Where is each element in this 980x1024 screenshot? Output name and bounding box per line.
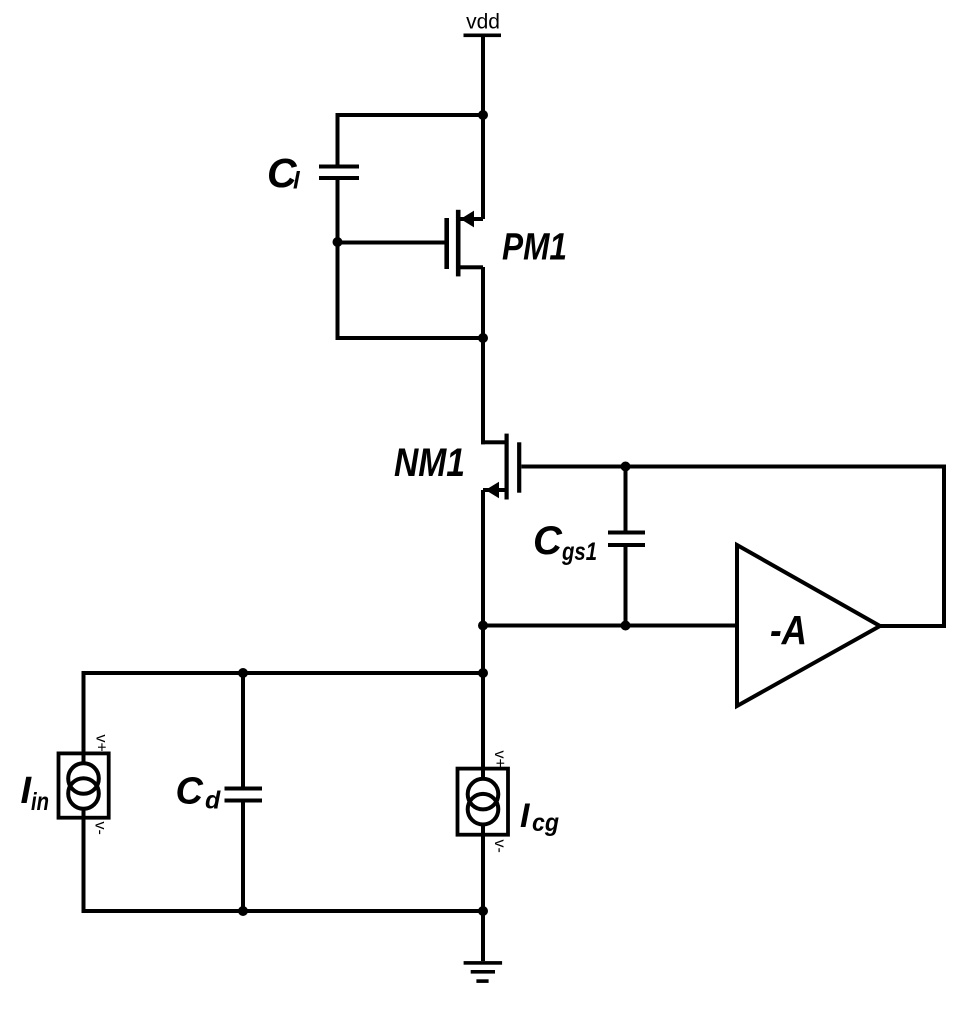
current source I_cg box	[458, 769, 509, 835]
svg-text:v+: v+	[93, 735, 110, 752]
svg-text:I: I	[520, 797, 531, 835]
current source I_in circles	[68, 763, 99, 794]
capacitor C_d plates	[225, 787, 263, 791]
junction N4 (gate / C_gs1 top)	[621, 462, 631, 472]
junction N6 (C_gs1 bottom on input rail)	[621, 621, 631, 631]
junction N10 (ground tap)	[478, 906, 488, 916]
transistor PM1 drain lead	[461, 265, 484, 269]
svg-text:vdd: vdd	[466, 11, 500, 34]
wire N5 down to bottom-section node N7	[481, 626, 485, 674]
svg-text:in: in	[31, 788, 49, 816]
svg-text:d: d	[205, 787, 221, 815]
transistor NM1 gate bar	[517, 442, 521, 492]
wire I_in bottom lead	[82, 809, 86, 911]
junction N8 (C_d top)	[238, 668, 248, 678]
wire node N1 left to C_l top	[336, 113, 484, 117]
capacitor C_l plates	[319, 165, 359, 169]
wire left branch down to I_in	[82, 673, 86, 764]
transistor PM1 source lead with arrow	[461, 217, 484, 221]
ground symbol	[464, 961, 503, 965]
svg-text:v-: v-	[491, 840, 508, 853]
wire feedback right vertical	[942, 467, 946, 627]
svg-text:C: C	[533, 519, 563, 563]
wire amp output	[878, 624, 946, 628]
wire NM1 gate right to feedback rail	[521, 465, 946, 469]
transistor PM1 channel bar	[456, 210, 461, 277]
wire C_l top lead	[336, 115, 340, 165]
wire N7 down to I_cg	[481, 673, 485, 779]
wire ground stem	[481, 911, 485, 961]
junction N7 (input node top rail)	[478, 668, 488, 678]
transistor PM1 gate bar	[444, 218, 449, 269]
wire N2 down and right to node N3	[336, 242, 340, 340]
svg-text:v+: v+	[491, 751, 508, 768]
wire C_l bottom lead to node N2	[336, 180, 340, 242]
junction N5 (NM1 source / amp input rail)	[478, 621, 488, 631]
capacitor C_d top lead	[241, 673, 245, 787]
junction N9 (C_d bottom on ground rail)	[238, 906, 248, 916]
op-amp U1 (-A) triangle	[737, 545, 880, 706]
capacitor C_d bottom lead	[241, 803, 245, 912]
svg-text:-A: -A	[770, 607, 807, 653]
current source I_cg circles	[468, 779, 499, 810]
wire bottom ground rail	[82, 909, 484, 913]
wire PM1 gate lead	[338, 241, 445, 245]
capacitor C_gs1 plates	[608, 531, 645, 535]
wire vdd bar down to node N1	[481, 35, 485, 116]
svg-text:v-: v-	[92, 822, 109, 835]
capacitor C_gs1 top lead	[624, 467, 628, 531]
junction N3 (PM1 drain / C_l return / NM1 drain)	[478, 333, 488, 343]
svg-text:PM1: PM1	[502, 226, 567, 268]
junction N1 (vdd / C_l / PM1 source)	[478, 110, 488, 120]
svg-text:NM1: NM1	[394, 441, 465, 485]
wire N5 right to amp input	[483, 624, 737, 628]
wire top rail of source network	[82, 671, 484, 675]
wire I_cg bottom lead	[481, 825, 485, 914]
svg-text:C: C	[176, 771, 204, 813]
junction N2 (C_l bottom / PM1 gate tap)	[333, 237, 343, 247]
current source I_in box	[59, 753, 109, 817]
capacitor C_gs1 bottom lead	[624, 547, 628, 626]
svg-text:cg: cg	[532, 809, 559, 837]
svg-text:gs1: gs1	[561, 538, 597, 566]
transistor NM1 drain jog	[481, 440, 505, 444]
transistor NM1 channel bar	[505, 434, 509, 500]
wire N3 down to NM1 drain	[481, 338, 485, 444]
transistor NM1 source lead with arrow	[483, 488, 505, 492]
vdd supply bar	[464, 34, 502, 38]
